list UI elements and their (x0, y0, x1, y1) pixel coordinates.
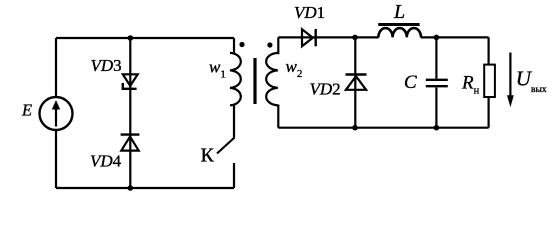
wire: VD3/VD4 branch (129, 38, 131, 188)
diode VD3 (zener) (123, 74, 138, 89)
svg-text:w2: w2 (286, 57, 303, 80)
svg-text:L: L (393, 1, 405, 23)
wire: secondary bottom rail (278, 127, 488, 129)
polarity dot w2 (267, 42, 272, 47)
diode VD2 (346, 75, 367, 90)
node: VD3 branch bottom junction (128, 185, 134, 191)
node: VD2 bottom junction (352, 125, 358, 131)
wire: primary top rail (56, 37, 234, 39)
wire: switch bottom lead (233, 163, 235, 188)
polarity dot w1 (239, 42, 244, 47)
node: C bottom junction (434, 125, 440, 131)
svg-text:w1: w1 (209, 58, 226, 81)
wire: primary left vertical (top) (55, 38, 57, 97)
svg-text:К: К (201, 145, 215, 167)
transformer core (253, 58, 256, 104)
switch K blade (217, 138, 235, 154)
source E (40, 97, 73, 130)
capacitor C (426, 37, 448, 127)
svg-text:Uвых: Uвых (516, 67, 547, 96)
wire: w1 bottom lead to switch (233, 105, 235, 138)
wire: VD2 branch (354, 37, 356, 127)
arrow Uout (507, 53, 514, 108)
svg-text:VD3: VD3 (91, 56, 122, 75)
winding w2 (266, 53, 278, 106)
diode VD1 (302, 29, 316, 46)
inductor L (378, 25, 421, 38)
node: C top junction (434, 35, 440, 41)
svg-text:VD1: VD1 (294, 3, 325, 22)
diode VD4 (121, 135, 140, 151)
wire: w2 top lead (277, 37, 279, 54)
svg-text:E: E (21, 101, 32, 120)
wire: primary bottom rail (56, 187, 234, 189)
svg-text:C: C (404, 72, 417, 93)
node: VD3 branch top junction (128, 35, 134, 41)
node: VD2 top junction (352, 35, 358, 41)
svg-text:VD4: VD4 (90, 152, 122, 171)
wire: secondary top rail (278, 36, 488, 38)
resistor Rn (484, 65, 495, 97)
svg-text:Rн: Rн (461, 73, 480, 97)
winding w1 (230, 53, 241, 106)
wire: w2 bottom lead (277, 105, 279, 128)
wire: load branch top (488, 37, 490, 64)
wire: load branch bottom (488, 97, 490, 128)
wire: primary left vertical (bottom) (55, 130, 57, 188)
wire: w1 top lead (233, 38, 235, 54)
svg-text:VD2: VD2 (310, 80, 341, 99)
